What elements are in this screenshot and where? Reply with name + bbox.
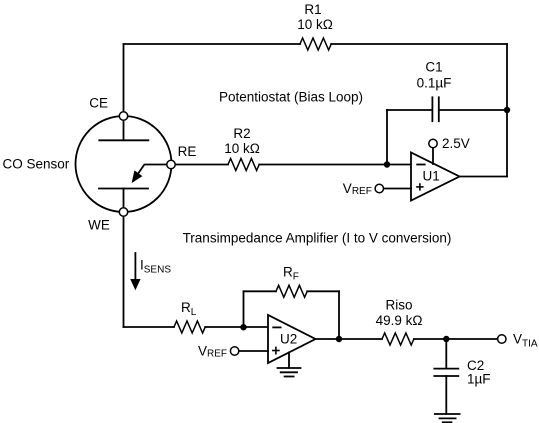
U1 minus sign — [417, 164, 425, 166]
wire top-left vertical from top rail to CE — [123, 44, 125, 112]
svg-text:R2: R2 — [233, 126, 250, 141]
wire Riso to VTIA — [414, 338, 497, 340]
svg-text:2.5V: 2.5V — [442, 136, 470, 151]
svg-text:Riso: Riso — [385, 297, 412, 312]
junction node RF to output — [336, 336, 342, 342]
wire U2 to ground — [288, 353, 290, 368]
svg-text:U1: U1 — [423, 168, 440, 183]
U1 plus sign — [417, 184, 423, 190]
U2 minus sign — [273, 326, 280, 328]
resistor R1 — [300, 38, 331, 50]
svg-text:R1: R1 — [304, 2, 321, 17]
wire RF top right segment — [307, 290, 339, 292]
svg-text:CE: CE — [89, 96, 108, 111]
svg-text:C1: C1 — [425, 60, 442, 75]
sensor upper plate — [99, 139, 148, 141]
wire RE to R2 — [175, 164, 228, 166]
svg-text:0.1µF: 0.1µF — [417, 76, 452, 91]
wire C1 left horizontal — [387, 109, 432, 111]
wire top rail right segment — [331, 43, 507, 45]
wire RF right vertical — [338, 291, 340, 339]
wire VREF to U2 noninverting input — [239, 350, 268, 352]
wire 2.5V supply to U1 — [432, 148, 434, 165]
junction node C2 tap — [443, 336, 449, 342]
wire C2 upper — [445, 339, 447, 368]
wire R2 to U1 inverting input — [259, 164, 411, 166]
svg-text:1µF: 1µF — [467, 372, 491, 387]
wire WE to RL — [124, 326, 175, 328]
resistor RL — [174, 321, 205, 333]
sensor RE arrowhead — [132, 171, 142, 182]
terminal 2.5V — [429, 139, 437, 147]
resistor RF — [276, 285, 307, 297]
sensor lower plate stem — [123, 189, 125, 208]
wire RL to U2 inverting input — [205, 326, 268, 328]
svg-text:49.9 kΩ: 49.9 kΩ — [376, 313, 423, 328]
svg-text:CO Sensor: CO Sensor — [3, 157, 70, 172]
svg-text:RE: RE — [178, 144, 197, 159]
terminal WE — [119, 208, 127, 216]
op-amp U2 — [268, 315, 316, 363]
junction node inverting input of U1 — [384, 161, 390, 167]
resistor Riso — [382, 333, 414, 345]
svg-text:Transimpedance Amplifier (I to: Transimpedance Amplifier (I to V convers… — [183, 231, 452, 246]
svg-text:10 kΩ: 10 kΩ — [297, 17, 333, 32]
op-amp U1 — [411, 153, 460, 201]
current arrow ISENS — [131, 253, 140, 289]
terminal VTIA — [498, 335, 506, 343]
svg-text:WE: WE — [88, 217, 110, 232]
terminal VREF (U2) — [230, 347, 238, 355]
terminal RE — [167, 160, 175, 168]
capacitor C1 — [432, 97, 438, 121]
resistor R2 — [228, 159, 259, 171]
wire C2 lower to ground — [445, 376, 447, 414]
CO sensor body circle — [76, 116, 172, 212]
wire VREF to U1 noninverting input — [384, 188, 411, 190]
wire U2 output to Riso — [316, 338, 383, 340]
terminal CE — [119, 112, 127, 120]
svg-text:Potentiostat (Bias Loop): Potentiostat (Bias Loop) — [219, 90, 363, 105]
wire C1 left vertical — [386, 110, 388, 165]
capacitor C2 — [434, 369, 458, 376]
sensor upper plate stem — [123, 121, 125, 141]
ground (U2) — [278, 368, 301, 377]
sensor lower plate — [99, 188, 148, 190]
wire C1 right horizontal — [439, 109, 507, 111]
wire RF left vertical — [243, 291, 245, 327]
svg-text:10 kΩ: 10 kΩ — [224, 141, 260, 156]
ground (C2) — [435, 414, 460, 422]
junction node C1 to feedback — [504, 107, 510, 113]
svg-text:U2: U2 — [280, 332, 297, 347]
junction node U2 inverting input — [240, 324, 246, 330]
wire RF top left segment — [244, 290, 277, 292]
U2 plus sign — [273, 347, 279, 353]
wire U1 output — [460, 176, 508, 178]
wire top rail left segment — [124, 43, 301, 45]
terminal VREF (U1) — [375, 184, 383, 192]
wire right vertical (feedback to U1 output) — [506, 44, 508, 177]
sensor RE internal wire — [138, 165, 167, 175]
wire WE down to transimpedance stage — [123, 216, 125, 327]
